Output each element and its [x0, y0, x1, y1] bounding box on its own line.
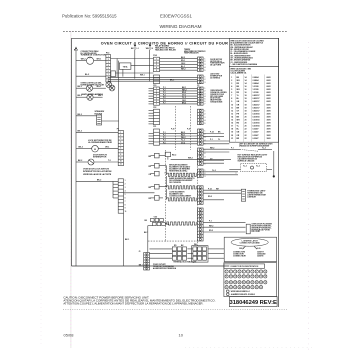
- svg-text:32: 32: [230, 287, 232, 289]
- svg-text:4: 4: [125, 190, 126, 193]
- svg-text:TABLEAU DES RELAIS: TABLEAU DES RELAIS: [155, 49, 177, 52]
- svg-text:0.823/17: 0.823/17: [253, 110, 260, 112]
- svg-text:5: 5: [125, 194, 126, 196]
- svg-text:300V: 300V: [267, 135, 272, 137]
- svg-text:YL-2: YL-2: [256, 166, 260, 168]
- scan artifact pink dashed line: [70, 31, 72, 348]
- svg-text:WIRE SINGLE/SENCILLO: WIRE SINGLE/SENCILLO: [231, 291, 251, 293]
- wire lamp2 right: [93, 96, 103, 98]
- svg-text:17: 17: [231, 126, 233, 128]
- wire fan left: [76, 60, 86, 62]
- wire group4 stubs: [149, 110, 154, 112]
- svg-text:16: 16: [245, 86, 247, 88]
- svg-text:20: 20: [231, 135, 233, 137]
- connector P12 mate box: [111, 71, 116, 77]
- svg-text:20: 20: [245, 123, 247, 125]
- svg-text:600V: 600V: [267, 86, 272, 88]
- oven lamp E1: [86, 85, 92, 91]
- svg-text:5: 5: [231, 89, 232, 91]
- svg-text:OVEN SENSOR/: OVEN SENSOR/: [210, 90, 223, 92]
- svg-text:600V: 600V: [267, 83, 272, 85]
- svg-text:18: 18: [245, 98, 247, 100]
- svg-text:600V: 600V: [267, 98, 272, 100]
- svg-text:0.519/10: 0.519/10: [253, 126, 260, 128]
- svg-text:10: 10: [231, 104, 233, 106]
- svg-text:WH: WH: [237, 120, 241, 122]
- svg-text:13: 13: [231, 113, 233, 115]
- terminal block wires: [149, 248, 172, 250]
- svg-text:RD-2: RD-2: [209, 230, 213, 232]
- svg-text:P-4: P-4: [163, 139, 166, 142]
- svg-text:9: 9: [231, 101, 232, 103]
- cavity dashed vertical upper left: [175, 106, 177, 150]
- svg-text:BK: BK: [149, 187, 152, 189]
- svg-text:BK: BK: [237, 77, 240, 79]
- svg-text:RD: RD: [149, 166, 152, 168]
- wire door switch right: [94, 161, 118, 163]
- scan artifact dotted line bottom: [185, 347, 312, 349]
- svg-text:05/08: 05/08: [64, 333, 75, 338]
- connector P22 strip: [154, 129, 160, 145]
- svg-text:RD: RD: [237, 83, 240, 85]
- svg-text:P-14: P-14: [208, 187, 212, 190]
- svg-text:9: 9: [125, 208, 126, 210]
- svg-text:WIRING DIAGRAM: WIRING DIAGRAM: [160, 24, 202, 30]
- svg-text:0.519/10: 0.519/10: [253, 123, 260, 125]
- svg-text:22: 22: [245, 129, 247, 131]
- svg-text:BK-1: BK-1: [139, 264, 143, 266]
- wire door switch left: [76, 161, 88, 163]
- svg-text:RD: RD: [237, 92, 240, 94]
- pin id row 3: [225, 281, 228, 284]
- speaker component LS1: [97, 115, 102, 125]
- connector legend box: [224, 237, 276, 261]
- svg-text:18: 18: [245, 104, 247, 106]
- svg-text:WIRE COLOR CODE/CODIGO DE COLO: WIRE COLOR CODE/CODIGO DE COLORES: [230, 40, 263, 42]
- svg-text:18: 18: [245, 101, 247, 103]
- convection element: [167, 198, 196, 201]
- wire strip A to B upper: [111, 58, 154, 60]
- svg-text:BK-2: BK-2: [79, 147, 83, 149]
- svg-text:3: 3: [205, 82, 206, 84]
- svg-text:4: 4: [120, 140, 121, 143]
- svg-text:20: 20: [245, 116, 247, 118]
- svg-text:300V: 300V: [267, 110, 272, 112]
- svg-text:ATTENTION:COUPEZ L'ALIMENTATIO: ATTENTION:COUPEZ L'ALIMENTATION AVANT D'…: [63, 302, 203, 306]
- svg-text:2: 2: [205, 134, 206, 136]
- svg-text:37: 37: [252, 287, 254, 289]
- wire gauge table box: [229, 67, 278, 143]
- wire speaker: [76, 115, 97, 117]
- svg-text:4: 4: [231, 85, 232, 88]
- svg-text:0.326/7: 0.326/7: [253, 135, 259, 137]
- svg-text:WH-2: WH-2: [181, 69, 185, 71]
- svg-text:P21: P21: [153, 126, 156, 128]
- transformer T2 box: [165, 152, 170, 156]
- svg-text:5: 5: [108, 68, 109, 70]
- svg-text:8: 8: [125, 204, 126, 206]
- svg-text:4: 4: [205, 139, 206, 142]
- svg-text:11: 11: [120, 164, 122, 166]
- wire TM-A down: [122, 69, 124, 76]
- svg-text:WH-2: WH-2: [210, 147, 214, 149]
- svg-text:20: 20: [245, 113, 247, 115]
- svg-text:318046249 REV:E: 318046249 REV:E: [230, 300, 277, 306]
- svg-text:18: 18: [231, 129, 233, 131]
- svg-text:0.823/17: 0.823/17: [253, 104, 260, 106]
- svg-text:2: 2: [205, 61, 206, 63]
- svg-text:P-14: P-14: [210, 131, 214, 134]
- wire stub right group f: [203, 189, 241, 191]
- svg-text:2: 2: [205, 153, 206, 155]
- lock motor B2: [92, 145, 99, 152]
- svg-text:T-2: T-2: [108, 160, 111, 162]
- svg-text:P-6: P-6: [163, 100, 166, 102]
- svg-text:2: 2: [205, 79, 206, 81]
- svg-text:3: 3: [205, 93, 206, 95]
- wire N down: [149, 50, 151, 82]
- wire stub right group a: [203, 133, 224, 135]
- svg-text:CAVITE: CAVITE: [257, 255, 264, 258]
- svg-text:600V: 600V: [267, 89, 272, 91]
- svg-text:RD-1: RD-1: [181, 60, 185, 62]
- svg-text:0.326/7: 0.326/7: [253, 132, 259, 134]
- scan artifact dotted line right margin: [308, 42, 310, 350]
- svg-text:3: 3: [205, 64, 206, 66]
- wire bus 3: [108, 80, 198, 82]
- svg-text:P-5: P-5: [163, 97, 166, 99]
- svg-text:P22: P22: [153, 107, 156, 109]
- wire lock motor left: [76, 148, 92, 150]
- pin id row 2: [225, 275, 228, 278]
- svg-text:WH-1: WH-1: [98, 95, 103, 97]
- svg-text:3: 3: [231, 83, 232, 85]
- svg-text:5: 5: [205, 70, 206, 72]
- svg-text:0.519/10: 0.519/10: [253, 116, 260, 118]
- svg-text:300V: 300V: [267, 138, 272, 140]
- svg-text:BR: BR: [237, 107, 240, 109]
- convection fan motor B1: [86, 57, 93, 64]
- svg-text:WH-1: WH-1: [97, 59, 102, 61]
- svg-text:SURFACE CHAUDE: SURFACE CHAUDE: [238, 159, 256, 162]
- svg-text:8: 8: [231, 98, 232, 100]
- svg-text:600V: 600V: [267, 104, 272, 106]
- svg-text:10: 10: [120, 161, 122, 163]
- connector P24 strip lower: [154, 75, 160, 84]
- svg-text:7: 7: [205, 104, 206, 106]
- wire key: [227, 290, 230, 293]
- terminal block left: [172, 247, 176, 251]
- svg-text:300V: 300V: [267, 113, 272, 115]
- svg-text:BL: BL: [237, 129, 240, 131]
- svg-text:7: 7: [108, 74, 109, 76]
- svg-text:WH-2: WH-2: [81, 59, 86, 61]
- relay K1: [155, 153, 160, 158]
- svg-text:P-1: P-1: [231, 148, 234, 150]
- wire left rail: [75, 51, 77, 267]
- svg-text:1: 1: [205, 58, 206, 60]
- svg-text:2.08/64: 2.08/64: [253, 76, 259, 79]
- thermostat box: [241, 189, 245, 201]
- svg-text:600V: 600V: [267, 101, 272, 103]
- wire surface unit junction: [273, 151, 275, 176]
- svg-text:P-31: P-31: [187, 129, 190, 131]
- wire TM-A right: [131, 65, 154, 67]
- door switch S1: [88, 159, 94, 165]
- wire stub right group d: [203, 159, 224, 161]
- svg-text:ALIMENTATION D'ENERGIA: ALIMENTATION D'ENERGIA: [153, 267, 177, 270]
- wire bus 2: [108, 78, 198, 80]
- transformer TM-A: [119, 63, 131, 69]
- connector legend leads: [243, 246, 246, 249]
- svg-text:TURBINE DE CONVECTION: TURBINE DE CONVECTION: [81, 55, 107, 57]
- svg-text:6: 6: [205, 101, 206, 103]
- svg-text:BL-1: BL-1: [181, 66, 185, 68]
- svg-text:0.519/10: 0.519/10: [253, 120, 260, 122]
- svg-text:DE CUISSON: DE CUISSON: [169, 182, 181, 184]
- wire color code box: [229, 38, 278, 66]
- broil element: [166, 166, 168, 175]
- svg-text:15: 15: [231, 120, 233, 122]
- svg-text:6: 6: [125, 197, 126, 199]
- svg-text:0.823/17: 0.823/17: [253, 98, 260, 100]
- cavity dashed vertical upper right: [189, 106, 191, 150]
- svg-text:1: 1: [205, 130, 206, 132]
- svg-text:1.31/26: 1.31/26: [253, 92, 259, 94]
- svg-text:1: 1: [125, 180, 126, 182]
- svg-text:WH-1: WH-1: [97, 86, 102, 88]
- title underline dashed: [63, 31, 287, 33]
- svg-text:N: N: [152, 48, 154, 50]
- svg-text:0.519/10: 0.519/10: [253, 113, 260, 115]
- svg-text:5: 5: [205, 123, 206, 125]
- relay K3: [155, 171, 160, 176]
- svg-text:P24: P24: [153, 54, 157, 57]
- svg-text:YL-2: YL-2: [262, 148, 266, 150]
- svg-text:12: 12: [230, 276, 232, 278]
- part number box 318046249 REV:E: [229, 297, 277, 307]
- svg-text:3: 3: [205, 137, 206, 139]
- svg-text:BL-2: BL-2: [85, 74, 89, 76]
- terminal block right: [192, 246, 208, 262]
- svg-text:6: 6: [231, 92, 232, 94]
- svg-text:1: 1: [205, 111, 206, 113]
- wire BL-2 to connector: [76, 75, 106, 77]
- svg-text:1.31/26: 1.31/26: [253, 89, 259, 91]
- svg-text:A-20: A-20: [257, 247, 261, 250]
- svg-text:SONDE DU FOUR: SONDE DU FOUR: [210, 94, 225, 96]
- svg-text:1: 1: [205, 88, 206, 90]
- svg-text:LIMITEUR: LIMITEUR: [247, 197, 256, 199]
- svg-text:BK-1: BK-1: [170, 80, 174, 82]
- svg-text:RTD 1091 OHMS: RTD 1091 OHMS: [210, 96, 224, 98]
- svg-text:4: 4: [205, 119, 206, 122]
- svg-text:14: 14: [245, 82, 247, 85]
- svg-text:5: 5: [205, 99, 206, 101]
- svg-text:LATCH SW/: LATCH SW/: [210, 73, 220, 76]
- svg-text:18: 18: [245, 110, 247, 112]
- svg-text:1.31/26: 1.31/26: [253, 86, 259, 88]
- wire group1 harness: [160, 58, 198, 60]
- svg-text:BK-1: BK-1: [125, 239, 129, 241]
- svg-text:CONNECTEUR: CONNECTEUR: [233, 256, 246, 258]
- svg-text:PR: PR: [237, 113, 240, 115]
- svg-text:7: 7: [125, 201, 126, 203]
- svg-text:12: 12: [231, 110, 233, 112]
- svg-text:P-1: P-1: [163, 132, 166, 134]
- wire group5 harness: [160, 132, 198, 134]
- wire L1 down: [134, 50, 136, 79]
- relay K2: [155, 163, 160, 168]
- wire lamp2 left: [76, 96, 87, 98]
- svg-text:P-2: P-2: [163, 135, 166, 137]
- svg-text:P-5: P-5: [163, 142, 166, 144]
- svg-text:TERMINAL BLOCK/BLOQUE: TERMINAL BLOCK/BLOQUE: [173, 260, 197, 263]
- svg-text:J1: J1: [139, 251, 141, 253]
- relay K5: [155, 196, 160, 201]
- svg-text:RD: RD: [149, 198, 152, 200]
- bottom dashed line: [63, 308, 287, 310]
- wire lamp1 right: [93, 87, 106, 89]
- svg-text:P-1: P-1: [210, 139, 213, 141]
- svg-text:16: 16: [245, 89, 247, 91]
- svg-text:P2: P2: [197, 85, 199, 87]
- svg-text:P-4: P-4: [163, 94, 166, 97]
- wire lamp1 left: [76, 87, 86, 89]
- svg-text:ALAMBRE DOBLE/FIL DOUBLE: ALAMBRE DOBLE/FIL DOUBLE: [231, 293, 255, 296]
- svg-text:0.823/17: 0.823/17: [253, 101, 260, 103]
- svg-text:YL: YL: [237, 126, 240, 128]
- svg-text:L1: L1: [137, 48, 139, 50]
- svg-text:1: 1: [108, 56, 109, 58]
- pin id row 1: [225, 270, 228, 273]
- svg-text:2: 2: [125, 184, 126, 186]
- svg-text:CAL ALAMBRE GA: CAL ALAMBRE GA: [230, 72, 247, 75]
- wire gauge table column lines: [234, 75, 236, 143]
- svg-text:BL: BL: [237, 98, 240, 100]
- connector P7 strip lower: [118, 179, 123, 213]
- svg-text:BR-2: BR-2: [182, 102, 186, 104]
- svg-text:600V: 600V: [267, 77, 272, 79]
- svg-text:RD-2: RD-2: [172, 154, 176, 156]
- svg-text:300V: 300V: [267, 126, 272, 128]
- svg-text:4: 4: [108, 64, 109, 67]
- svg-text:2.08/64: 2.08/64: [253, 82, 259, 85]
- svg-text:23: 23: [234, 282, 236, 284]
- connector pin id bar: [224, 264, 265, 268]
- scan artifact dotted line left margin: [40, 55, 42, 345]
- svg-text:BK-2: BK-2: [78, 114, 82, 116]
- svg-text:GN: GN: [237, 101, 240, 103]
- svg-text:BK: BK: [149, 156, 152, 158]
- schematic frame: [72, 38, 279, 266]
- svg-text:16: 16: [245, 92, 247, 94]
- svg-text:BK: BK: [237, 86, 240, 88]
- svg-text:20: 20: [245, 126, 247, 128]
- door microswitch box: [246, 224, 250, 234]
- svg-text:WH: WH: [237, 89, 241, 91]
- connector P23 strip lower: [154, 109, 160, 125]
- svg-text:BK-2: BK-2: [78, 160, 82, 162]
- pin id row 4: [225, 286, 228, 289]
- svg-text:14: 14: [231, 115, 233, 118]
- svg-text:BK-1: BK-1: [144, 232, 148, 234]
- svg-text:38: 38: [256, 287, 258, 289]
- svg-text:300V: 300V: [267, 116, 272, 118]
- svg-text:2.08/64: 2.08/64: [253, 79, 259, 82]
- svg-text:GY-2: GY-2: [181, 142, 185, 144]
- relay board connector P1 strip: [198, 57, 204, 72]
- svg-text:300V: 300V: [267, 107, 272, 109]
- wire junction drop: [116, 59, 118, 78]
- svg-text:M: M: [94, 149, 96, 151]
- svg-text:WH: WH: [146, 48, 150, 50]
- svg-text:OR-1: OR-1: [105, 147, 109, 149]
- svg-text:3: 3: [205, 117, 206, 119]
- wire stub right group e: [203, 171, 238, 173]
- svg-text:P-1: P-1: [209, 221, 212, 223]
- svg-text:CONNECTOR PIN IDENTIFICATION: CONNECTOR PIN IDENTIFICATION: [230, 265, 259, 268]
- svg-text:300V: 300V: [267, 120, 272, 122]
- svg-text:18: 18: [256, 276, 258, 278]
- svg-text:2: 2: [231, 80, 232, 82]
- svg-text:300V: 300V: [267, 129, 272, 131]
- svg-text:17: 17: [252, 276, 254, 278]
- bake element: [167, 186, 196, 189]
- svg-text:13: 13: [234, 276, 236, 278]
- svg-text:19: 19: [231, 132, 233, 134]
- wire fan right: [94, 60, 106, 62]
- wire TOD down: [147, 226, 149, 253]
- svg-text:OVEN DOOR LOCK SWITCH/: OVEN DOOR LOCK SWITCH/: [83, 168, 109, 170]
- wire lamp bus down: [118, 61, 120, 131]
- wires into P7 lower: [113, 183, 118, 185]
- svg-text:600V: 600V: [267, 92, 272, 94]
- svg-text:DOOR MOTOR/: DOOR MOTOR/: [210, 59, 222, 61]
- svg-text:YL-2: YL-2: [243, 166, 247, 168]
- svg-text:BK: BK: [145, 220, 148, 222]
- wire P7 down: [123, 213, 125, 266]
- wire P7 to relay: [124, 192, 155, 194]
- svg-text:WH-2: WH-2: [188, 158, 193, 160]
- svg-text:2: 2: [205, 114, 206, 116]
- oven lamp E4 cluster: [109, 85, 115, 91]
- svg-text:P-3: P-3: [163, 92, 166, 94]
- svg-text:1: 1: [205, 150, 206, 152]
- svg-text:WH-1: WH-1: [140, 75, 145, 77]
- svg-text:VERROUILLAGE DE LA PORTE: VERROUILLAGE DE LA PORTE: [83, 173, 112, 176]
- svg-text:WH-2: WH-2: [209, 225, 213, 227]
- svg-text:YL-2: YL-2: [212, 170, 216, 172]
- svg-text:P-1: P-1: [163, 87, 166, 89]
- svg-text:WH: WH: [237, 80, 241, 82]
- svg-text:27: 27: [252, 282, 254, 284]
- wire stub right group g: [203, 221, 245, 223]
- connector pin id outer box: [224, 263, 277, 297]
- svg-text:0.326/7: 0.326/7: [253, 129, 259, 131]
- svg-text:600V: 600V: [267, 95, 272, 97]
- svg-text:RESISTENCE (GRIL): RESISTENCE (GRIL): [169, 170, 187, 172]
- lower bake element: [167, 222, 196, 225]
- svg-text:300V: 300V: [267, 132, 272, 134]
- svg-text:OR: OR: [237, 104, 240, 106]
- svg-text:TM A: TM A: [123, 65, 128, 68]
- svg-text:DU VERROU: DU VERROU: [210, 78, 221, 80]
- svg-text:20: 20: [245, 120, 247, 122]
- wire WH-2 long: [171, 159, 231, 161]
- svg-text:16: 16: [231, 123, 233, 125]
- wire stub right group b: [203, 140, 229, 142]
